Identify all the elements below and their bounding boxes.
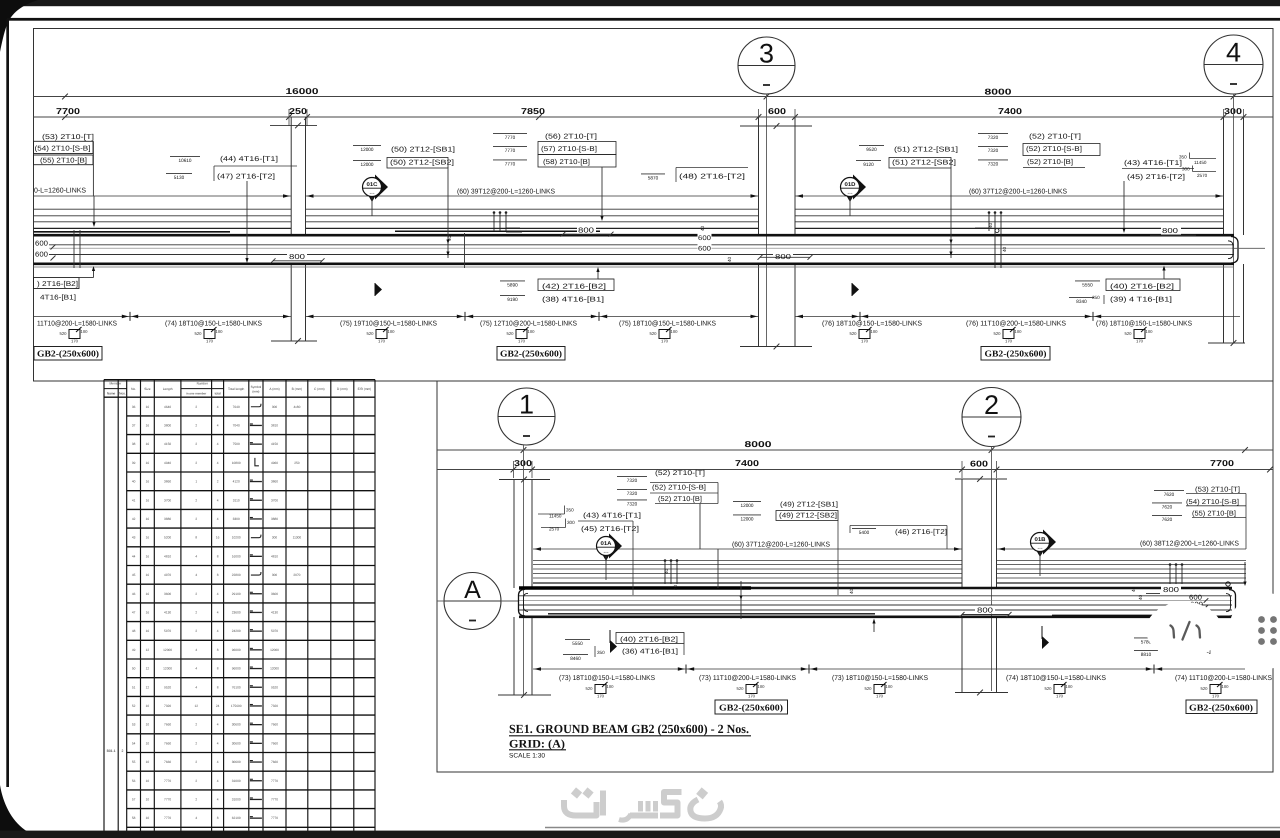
svg-text:100: 100 [216, 329, 224, 334]
svg-text:40: 40 [673, 584, 678, 590]
svg-text:7320: 7320 [988, 162, 999, 168]
svg-text:(40) 2T16-[B2]: (40) 2T16-[B2] [1110, 283, 1174, 291]
svg-text:520: 520 [1045, 686, 1053, 691]
links dim line y196 [34, 195, 292, 197]
svg-text:170: 170 [71, 339, 79, 344]
svg-text:40: 40 [664, 568, 669, 574]
top black bar [0, 0, 1280, 6]
svg-text:No.: No. [131, 387, 136, 391]
svg-text:170: 170 [597, 694, 605, 699]
svg-text:40: 40 [988, 222, 993, 228]
svg-text:2: 2 [195, 442, 197, 446]
page bottom edge line [545, 827, 1280, 829]
svg-text:100: 100 [81, 329, 89, 334]
svg-text:49: 49 [132, 648, 136, 652]
label 42/38 mid [500, 280, 525, 282]
svg-text:GB2-(250x600): GB2-(250x600) [37, 349, 99, 359]
svg-text:8: 8 [217, 648, 219, 652]
svg-text:2: 2 [195, 498, 197, 502]
lap dim 800 at grid3 [773, 252, 793, 260]
svg-text:170: 170 [378, 339, 386, 344]
svg-text:(52) 2T10-[B]: (52) 2T10-[B] [1027, 158, 1073, 166]
svg-text:4: 4 [217, 723, 219, 727]
svg-text:10: 10 [146, 797, 150, 801]
svg-text:300: 300 [567, 520, 575, 525]
dim line B (7700/250/7850/600/7400/300) [34, 116, 1274, 118]
svg-text:520: 520 [1125, 331, 1133, 336]
svg-text:24200: 24200 [232, 629, 241, 633]
dim extension stubs [288, 109, 290, 126]
column grid2 bottom drawing [961, 479, 963, 588]
svg-text:520: 520 [994, 331, 1002, 336]
svg-text:520: 520 [737, 686, 745, 691]
leader SB2-51 box [950, 167, 952, 258]
column grid4 [1223, 117, 1225, 235]
svg-text:9120: 9120 [863, 162, 874, 168]
svg-text:54: 54 [132, 741, 136, 745]
section marker bottom drawing 2 [1041, 626, 1043, 639]
svg-text:8810: 8810 [1141, 652, 1152, 658]
svg-text:16: 16 [146, 461, 150, 465]
svg-text:16000: 16000 [232, 554, 241, 558]
svg-text:3110: 3110 [233, 498, 240, 502]
svg-text:350: 350 [597, 650, 605, 655]
links dim line y316 [34, 315, 292, 317]
svg-text:50: 50 [132, 667, 136, 671]
svg-text:(55) 2T10-[B]: (55) 2T10-[B] [40, 157, 87, 165]
svg-text:Number: Number [197, 382, 209, 386]
svg-text:48: 48 [132, 629, 136, 633]
svg-text:4: 4 [217, 442, 219, 446]
svg-text:(60) 38T12@200-L=1260-LINKS: (60) 38T12@200-L=1260-LINKS [1140, 540, 1239, 548]
svg-text:01D: 01D [845, 182, 856, 188]
svg-text:800: 800 [578, 226, 594, 235]
svg-text:16: 16 [146, 480, 150, 484]
svg-text:4: 4 [217, 498, 219, 502]
svg-text:11T10@200-L=1580-LINKS: 11T10@200-L=1580-LINKS [37, 320, 117, 328]
svg-text:7770: 7770 [505, 135, 516, 141]
svg-text:4: 4 [195, 685, 197, 689]
svg-text:800: 800 [1163, 585, 1179, 594]
svg-text:52: 52 [132, 704, 136, 708]
svg-text:---: --- [370, 191, 375, 197]
watermark dots [571, 787, 708, 799]
svg-text:31000: 31000 [232, 779, 241, 783]
svg-text:7700: 7700 [1210, 458, 1234, 468]
bottom-left corner black blob [0, 785, 50, 838]
bar end marks mid-left [493, 213, 495, 231]
svg-text:SCALE 1:30: SCALE 1:30 [509, 753, 545, 760]
svg-text:B (mm): B (mm) [292, 387, 302, 391]
svg-text:10200: 10200 [232, 536, 241, 540]
svg-text:(53) 2T10-[T]: (53) 2T10-[T] [42, 133, 94, 141]
svg-text:12: 12 [194, 704, 198, 708]
svg-text:42: 42 [132, 517, 136, 521]
svg-text:4150: 4150 [271, 442, 278, 446]
section marker bottom drawing [609, 630, 611, 643]
svg-text:7620: 7620 [1162, 517, 1173, 523]
svg-text:4130: 4130 [271, 610, 278, 614]
svg-text:(36) 4T16-[B1]: (36) 4T16-[B1] [622, 648, 678, 656]
svg-text:46: 46 [132, 592, 136, 596]
svg-text:2570: 2570 [549, 527, 560, 532]
svg-text:3860: 3860 [271, 480, 278, 484]
svg-text:4: 4 [217, 779, 219, 783]
svg-text:4T16-[B1]: 4T16-[B1] [40, 294, 76, 302]
svg-text:40: 40 [727, 256, 732, 262]
menu dots overlay [1229, 592, 1280, 670]
svg-text:12: 12 [146, 667, 150, 671]
leader 44/47 [246, 181, 248, 258]
svg-text:4: 4 [195, 573, 197, 577]
svg-text:4120: 4120 [233, 480, 240, 484]
svg-text:170: 170 [1136, 339, 1144, 344]
label 47 2T16-T2 [166, 172, 192, 174]
stirrup verticals bottom [740, 581, 742, 619]
svg-text:(55) 2T10-[B]: (55) 2T10-[B] [1192, 510, 1236, 518]
beam right end cap [1231, 237, 1238, 264]
svg-text:(60) 39T12@200-L=1260-LINKS: (60) 39T12@200-L=1260-LINKS [457, 188, 555, 196]
svg-text:350: 350 [1179, 155, 1187, 160]
svg-text:Symbol: Symbol [251, 385, 262, 389]
svg-text:8: 8 [217, 816, 219, 820]
svg-text:39: 39 [132, 461, 136, 465]
svg-text:2: 2 [122, 749, 124, 753]
svg-text:(76) 11T10@200-L=1580-LINKS: (76) 11T10@200-L=1580-LINKS [966, 320, 1066, 328]
svg-text:---: --- [604, 550, 609, 556]
svg-text:4070: 4070 [164, 573, 171, 577]
svg-text:(52) 2T10-[T]: (52) 2T10-[T] [655, 469, 705, 477]
svg-text:800: 800 [775, 252, 791, 261]
svg-text:(76) 18T10@150-L=1580-LINKS: (76) 18T10@150-L=1580-LINKS [1096, 320, 1192, 328]
svg-text:E/R (mm): E/R (mm) [358, 387, 372, 391]
svg-text:10: 10 [146, 779, 150, 783]
svg-text:300: 300 [272, 573, 278, 577]
lap dim 800 grid2 bottom [975, 606, 995, 614]
svg-text:01A: 01A [601, 541, 612, 547]
svg-text:76100: 76100 [232, 685, 241, 689]
svg-text:16: 16 [146, 554, 150, 558]
links dim line y669 [533, 668, 1245, 670]
svg-text:3600: 3600 [271, 592, 278, 596]
svg-text:31000: 31000 [232, 797, 241, 801]
svg-text:GB2-(250x600): GB2-(250x600) [1189, 703, 1253, 713]
svg-text:(38) 4T16-[B1]: (38) 4T16-[B1] [542, 296, 604, 304]
svg-text:16: 16 [146, 442, 150, 446]
svg-text:SE1. GROUND BEAM GB2 (250x600): SE1. GROUND BEAM GB2 (250x600) - 2 Nos. [509, 722, 749, 736]
svg-text:520: 520 [650, 331, 658, 336]
svg-text:Member: Member [109, 382, 122, 386]
svg-text:(45) 2T16-[T2]: (45) 2T16-[T2] [581, 525, 639, 533]
svg-text:51: 51 [132, 685, 136, 689]
svg-text:55: 55 [132, 760, 136, 764]
svg-text:800: 800 [289, 252, 305, 261]
svg-text:4810: 4810 [164, 554, 171, 558]
beam bottom dark segment [1052, 615, 1153, 617]
600 600 labels left edge [34, 239, 49, 257]
svg-text:8: 8 [217, 667, 219, 671]
svg-text:(39) 4 T16-[B1]: (39) 4 T16-[B1] [1110, 296, 1172, 304]
svg-text:GB2-(250x600): GB2-(250x600) [719, 703, 783, 713]
lap dim 800 right bottom [1161, 585, 1181, 593]
svg-text:9520: 9520 [271, 685, 278, 689]
svg-text:8: 8 [217, 573, 219, 577]
grid circle 3 [738, 37, 795, 94]
svg-text:0-L=1260-LINKS: 0-L=1260-LINKS [34, 188, 86, 195]
svg-text:12000: 12000 [163, 667, 172, 671]
svg-text:520: 520 [1201, 686, 1209, 691]
top border thick line [7, 18, 1280, 21]
svg-text:7320: 7320 [627, 491, 638, 497]
svg-text:45: 45 [132, 573, 136, 577]
svg-text:3: 3 [759, 39, 774, 69]
svg-text:4940: 4940 [164, 461, 171, 465]
svg-text:4: 4 [195, 667, 197, 671]
svg-text:2: 2 [195, 760, 197, 764]
svg-text:9520: 9520 [164, 685, 171, 689]
svg-text:7660: 7660 [164, 723, 171, 727]
svg-text:4: 4 [195, 554, 197, 558]
top bar lines above beam [34, 208, 292, 210]
svg-text:8: 8 [217, 554, 219, 558]
svg-text:29100: 29100 [232, 592, 241, 596]
svg-text:2: 2 [195, 461, 197, 465]
svg-text:100: 100 [388, 329, 396, 334]
section marker top drawing [374, 283, 376, 296]
svg-text:11450: 11450 [549, 514, 562, 519]
svg-text:800: 800 [977, 606, 993, 615]
svg-text:7770: 7770 [271, 797, 278, 801]
svg-text:12000: 12000 [741, 503, 754, 509]
svg-text:10: 10 [146, 741, 150, 745]
svg-text:57: 57 [132, 797, 136, 801]
svg-text:170: 170 [1005, 339, 1013, 344]
bar end marks bottom mid [664, 561, 666, 584]
svg-text:5070: 5070 [164, 629, 171, 633]
svg-text:Size: Size [144, 387, 150, 391]
svg-text:7770: 7770 [164, 779, 171, 783]
svg-text:GB2-(250x600): GB2-(250x600) [985, 349, 1047, 359]
label 40/39 right [1075, 280, 1100, 282]
dim line A (16000/8000) [34, 96, 1274, 98]
svg-text:3880: 3880 [271, 517, 278, 521]
svg-text:(47) 2T16-[T2]: (47) 2T16-[T2] [217, 173, 275, 181]
svg-text:1: 1 [195, 480, 197, 484]
svg-text:5550: 5550 [572, 641, 583, 647]
svg-text:100: 100 [871, 329, 879, 334]
svg-text:24: 24 [216, 704, 220, 708]
svg-text:(49) 2T12-[SB2]: (49) 2T12-[SB2] [779, 512, 837, 520]
label group 51 SB1/SB2 [859, 144, 884, 146]
svg-text:7770: 7770 [164, 816, 171, 820]
svg-text:7770: 7770 [271, 816, 278, 820]
label 40/36 bottom [565, 638, 590, 640]
svg-text:16: 16 [146, 405, 150, 409]
svg-text:(48) 2T16-[T2]: (48) 2T16-[T2] [679, 173, 745, 181]
svg-text:56: 56 [132, 779, 136, 783]
svg-text:8460: 8460 [570, 656, 581, 662]
svg-text:23600: 23600 [232, 610, 241, 614]
svg-text:62100: 62100 [232, 816, 241, 820]
beam outline top bottom-drawing [519, 587, 1232, 590]
svg-text:8000: 8000 [745, 439, 772, 449]
svg-text:4: 4 [195, 816, 197, 820]
grid A stub right [1234, 247, 1265, 249]
svg-text:170: 170 [748, 694, 756, 699]
leader arrow left links [93, 196, 95, 222]
svg-text:7770: 7770 [271, 779, 278, 783]
label group 53-55 bottom right [1154, 489, 1184, 491]
svg-text:11300: 11300 [293, 536, 302, 540]
svg-text:300: 300 [272, 405, 278, 409]
svg-text:5400: 5400 [859, 530, 870, 536]
svg-text:7770: 7770 [164, 797, 171, 801]
svg-text:4: 4 [217, 423, 219, 427]
svg-text:2: 2 [195, 423, 197, 427]
svg-text:2: 2 [195, 797, 197, 801]
svg-text:36: 36 [132, 405, 136, 409]
svg-text:40: 40 [700, 225, 705, 231]
svg-text:2: 2 [195, 405, 197, 409]
svg-text:600: 600 [970, 459, 988, 469]
stirrup change verticals [447, 167, 449, 258]
GB2 label box 3 [981, 347, 1050, 361]
svg-text:100: 100 [1066, 684, 1074, 689]
svg-text:) 2T16-[B2]: ) 2T16-[B2] [37, 280, 78, 288]
svg-text:(40) 2T16-[B2]: (40) 2T16-[B2] [620, 636, 678, 644]
grid line 3 [766, 94, 768, 347]
svg-text:100: 100 [1222, 684, 1230, 689]
svg-text:(75) 12T10@200-L=1580-LINKS: (75) 12T10@200-L=1580-LINKS [480, 320, 577, 328]
grid circle 4 [1204, 35, 1263, 94]
svg-text:7660: 7660 [164, 760, 171, 764]
column grid3 (600 wide) [758, 117, 760, 235]
svg-text:30600: 30600 [232, 741, 241, 745]
bar end marks bottom right [1169, 565, 1171, 584]
svg-text:7320: 7320 [988, 135, 999, 141]
svg-text:170: 170 [661, 339, 669, 344]
svg-text:170: 170 [518, 339, 526, 344]
svg-text:2570: 2570 [1197, 173, 1208, 178]
label B2/B1 left [34, 278, 80, 289]
svg-text:16: 16 [146, 498, 150, 502]
svg-text:7620: 7620 [1162, 505, 1173, 511]
svg-text:(50) 2T12-[SB2]: (50) 2T12-[SB2] [390, 159, 454, 167]
GB2 box bottom drawing 2 [1186, 700, 1257, 714]
section marker top drawing 2 [851, 283, 853, 296]
svg-text:Nos.: Nos. [119, 392, 126, 396]
svg-text:520: 520 [850, 331, 858, 336]
beam left end cap [519, 589, 526, 616]
svg-text:7660: 7660 [271, 760, 278, 764]
svg-text:5550: 5550 [1082, 283, 1093, 289]
svg-text:B01-1: B01-1 [107, 749, 116, 753]
svg-text:3860: 3860 [164, 480, 171, 484]
svg-text:10610: 10610 [179, 158, 192, 164]
svg-text:3880: 3880 [164, 517, 171, 521]
svg-text:96000: 96000 [232, 667, 241, 671]
beam outline top [34, 234, 1235, 237]
label group 49 [733, 500, 761, 502]
bottom black bar [0, 831, 1280, 838]
svg-text:47: 47 [132, 610, 136, 614]
svg-text:350: 350 [566, 508, 574, 513]
svg-text:7040: 7040 [233, 423, 240, 427]
svg-text:600: 600 [35, 252, 48, 259]
svg-text:16: 16 [146, 423, 150, 427]
circle mark 01D [853, 175, 866, 200]
svg-text:(43) 4T16-[T1]: (43) 4T16-[T1] [1124, 159, 1182, 167]
svg-text:3600: 3600 [164, 592, 171, 596]
svg-text:(56) 2T10-[T]: (56) 2T10-[T] [545, 133, 597, 141]
svg-text:12000: 12000 [361, 162, 374, 168]
svg-text:520: 520 [507, 331, 515, 336]
svg-text:Length: Length [163, 387, 173, 391]
svg-text:350: 350 [1092, 295, 1100, 300]
svg-text:(52) 2T10-[T]: (52) 2T10-[T] [1029, 133, 1081, 141]
svg-text:7770: 7770 [505, 162, 516, 168]
svg-text:in one member: in one member [186, 392, 206, 396]
svg-text:4960: 4960 [271, 461, 278, 465]
svg-text:44: 44 [132, 554, 136, 558]
svg-text:170: 170 [861, 339, 869, 344]
svg-text:12000: 12000 [361, 147, 374, 153]
svg-text:11450: 11450 [1194, 160, 1207, 165]
svg-text:4: 4 [217, 741, 219, 745]
svg-text:A: A [464, 576, 481, 604]
svg-text:100: 100 [607, 684, 615, 689]
svg-text:600: 600 [1189, 595, 1202, 602]
svg-text:7400: 7400 [998, 106, 1022, 116]
svg-text:(52) 2T10-[S-B]: (52) 2T10-[S-B] [1026, 145, 1082, 153]
svg-text:2: 2 [195, 741, 197, 745]
svg-text:12000: 12000 [163, 648, 172, 652]
GB2 label box 1 [34, 347, 102, 361]
svg-text:2: 2 [217, 480, 219, 484]
svg-text:(49) 2T12-[SB1]: (49) 2T12-[SB1] [780, 501, 838, 509]
leader 56-58 [601, 167, 603, 216]
svg-text:100: 100 [671, 329, 679, 334]
svg-text:C (mm): C (mm) [314, 387, 325, 391]
svg-text:600: 600 [698, 246, 711, 253]
svg-text:2: 2 [195, 610, 197, 614]
svg-text:7320: 7320 [164, 704, 171, 708]
leader 43/45 [1123, 181, 1125, 228]
svg-text:58: 58 [132, 816, 136, 820]
column C1 (250 wide) [290, 117, 292, 235]
bar cutoff verticals left [73, 230, 75, 268]
GB2 box bottom drawing 1 [715, 700, 788, 714]
label group 50 SB1/SB2 [353, 144, 381, 146]
svg-text:GB2-(250x600): GB2-(250x600) [500, 349, 562, 359]
svg-text:5130: 5130 [174, 175, 185, 181]
top bar lines bottom drawing [533, 560, 962, 562]
bar bending schedule table [104, 380, 375, 831]
svg-text:250: 250 [294, 461, 300, 465]
link symbols row [69, 330, 80, 339]
beam outline bottom [34, 262, 1235, 265]
svg-text:37: 37 [132, 423, 136, 427]
svg-text:16: 16 [146, 592, 150, 596]
links dim line y549 [533, 548, 962, 550]
svg-text:(73) 18T10@150-L=1580-LINKS: (73) 18T10@150-L=1580-LINKS [559, 674, 655, 682]
svg-text:3300: 3300 [233, 517, 240, 521]
svg-text:38: 38 [132, 442, 136, 446]
link symbols bottom drawing [595, 685, 606, 694]
svg-text:(75) 18T10@150-L=1580-LINKS: (75) 18T10@150-L=1580-LINKS [619, 320, 716, 328]
beam inner bars [34, 244, 1235, 246]
svg-text:4: 4 [217, 461, 219, 465]
